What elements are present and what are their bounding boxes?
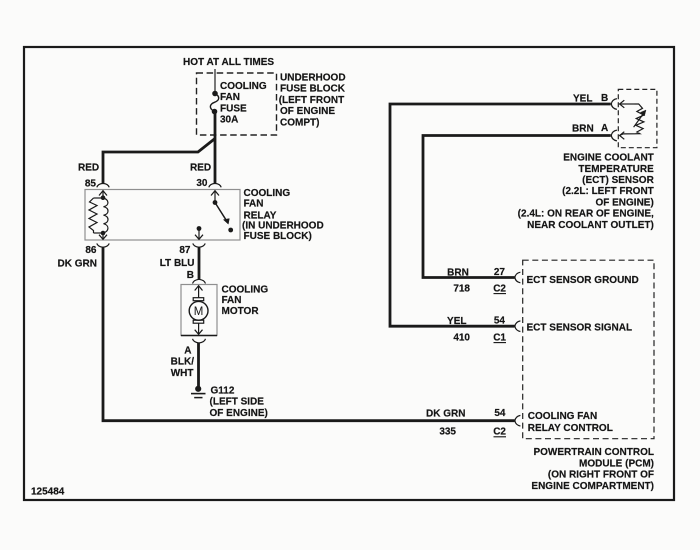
connector arc at sensor pin B (611, 99, 617, 110)
relay coil node dot (bottom, pin 86 side) (101, 231, 106, 236)
svg-text:COOLING: COOLING (244, 188, 291, 199)
relay coil (between pins 85 and 86) (89, 198, 108, 233)
svg-text:ECT SENSOR SIGNAL: ECT SENSOR SIGNAL (527, 323, 633, 334)
svg-text:LT BLU: LT BLU (160, 258, 195, 269)
wire RED: fuse output down to relay pin 30 (214, 112, 217, 184)
svg-text:C2: C2 (493, 426, 506, 437)
svg-text:30: 30 (196, 178, 208, 189)
label: COOLING FAN RELAY CONTROL (528, 411, 613, 434)
svg-text:BRN: BRN (572, 124, 594, 135)
svg-text:(ECT) SENSOR: (ECT) SENSOR (582, 175, 654, 186)
svg-text:MODULE (PCM): MODULE (PCM) (579, 458, 654, 469)
svg-text:27: 27 (494, 267, 506, 278)
ECT sensor (dashed boundary) (618, 89, 657, 147)
connector arc at relay pin 86 (97, 243, 109, 247)
label: POWERTRAIN CONTROL MODULE (PCM) (ON RIGHT FRONT OF ENGINE COMPARTMENT) (531, 447, 654, 492)
label: COOLING FAN FUSE 30A (220, 81, 267, 126)
svg-text:(LEFT FRONT: (LEFT FRONT (279, 95, 345, 106)
svg-text:54: 54 (494, 408, 506, 419)
svg-text:FUSE: FUSE (220, 103, 247, 114)
wire DK GRN: relay pin 86 down and across to PCM pin 54 C2 (103, 247, 515, 421)
connector id C2 (underlined) (493, 426, 506, 437)
svg-text:ENGINE COMPARTMENT): ENGINE COMPARTMENT) (531, 481, 654, 492)
svg-text:C1: C1 (493, 332, 506, 343)
svg-text:YEL: YEL (573, 94, 592, 105)
fuse: COOLING FAN FUSE 30A (210, 91, 218, 114)
svg-text:(LEFT SIDE: (LEFT SIDE (210, 397, 265, 408)
wire BRN: ECT sensor pin A across and down to PCM pin 27 C2 (423, 136, 611, 278)
svg-text:UNDERHOOD: UNDERHOOD (280, 72, 346, 83)
svg-text:(2.2L: LEFT FRONT: (2.2L: LEFT FRONT (562, 186, 654, 197)
svg-text:FUSE BLOCK: FUSE BLOCK (280, 84, 346, 95)
relay switch fixed contact dot (228, 228, 233, 233)
motor M1: armature circle with M (189, 301, 208, 320)
relay switch terminal 87: male arrow pin (195, 229, 203, 240)
svg-text:(2.4L: ON REAR OF ENGINE,: (2.4L: ON REAR OF ENGINE, (518, 209, 654, 220)
thermistor element of ECT sensor (620, 104, 644, 135)
relay coil terminal 85: male arrow pin (99, 191, 107, 198)
motor M1: brush bottom (193, 320, 204, 323)
svg-text:(IN UNDERHOOD: (IN UNDERHOOD (242, 221, 324, 232)
cooling fan motor box (181, 285, 217, 336)
connector arc at PCM pin 27 (515, 272, 521, 283)
svg-text:A: A (601, 123, 608, 134)
svg-text:718: 718 (453, 283, 470, 294)
connector arc at motor pin B (193, 279, 206, 283)
svg-text:DK GRN: DK GRN (426, 409, 465, 420)
thermistor characteristic arrow (634, 110, 646, 127)
wire: feed from fuse block top to fuse (214, 69, 216, 93)
svg-text:NEAR COOLANT OUTLET): NEAR COOLANT OUTLET) (527, 220, 654, 231)
svg-text:54: 54 (494, 316, 506, 327)
svg-text:WHT: WHT (171, 368, 194, 379)
svg-text:85: 85 (85, 179, 97, 190)
svg-text:B: B (187, 270, 194, 281)
svg-text:OF ENGINE): OF ENGINE) (595, 197, 653, 208)
label: COOLING FAN RELAY (IN UNDERHOOD FUSE BLOCK) (242, 188, 324, 242)
svg-text:RED: RED (190, 163, 211, 174)
label: BLK/WHT wire (171, 357, 195, 379)
connector id C1 (underlined) (493, 332, 506, 343)
svg-text:335: 335 (439, 426, 456, 437)
svg-text:FAN: FAN (244, 199, 264, 210)
svg-text:YEL: YEL (447, 316, 466, 327)
connector arc at relay pin 30 (209, 183, 221, 187)
powertrain control module PCM (dashed boundary) (523, 260, 654, 439)
svg-text:COOLING: COOLING (220, 81, 267, 92)
underhood fuse block (dashed boundary) (197, 73, 277, 135)
svg-text:POWERTRAIN CONTROL: POWERTRAIN CONTROL (533, 447, 654, 458)
relay switch terminal 30: male arrow pin (211, 191, 219, 203)
svg-text:(ON RIGHT FRONT OF: (ON RIGHT FRONT OF (548, 470, 654, 481)
label: ENGINE COOLANT TEMPERATURE (ECT) SENSOR (2.2L / 2.4L locations) (518, 153, 655, 231)
svg-text:A: A (184, 346, 191, 357)
connector arc at motor pin A (193, 339, 206, 343)
svg-text:C2: C2 (493, 283, 506, 294)
wire YEL: ECT sensor pin B across and down to PCM pin 54 C1 (390, 104, 611, 326)
wire BLK/WHT: motor pin A to ground G112 (197, 343, 200, 387)
svg-text:BRN: BRN (447, 267, 469, 278)
connector arc at relay pin 85 (97, 183, 109, 187)
sensor pin B male arrow inside box (620, 100, 635, 108)
connector arc at relay pin 87 (193, 243, 205, 247)
svg-text:B: B (601, 93, 608, 104)
svg-text:TEMPERATURE: TEMPERATURE (578, 164, 654, 175)
svg-text:MOTOR: MOTOR (222, 306, 260, 317)
label: G112 (LEFT SIDE OF ENGINE) (210, 385, 268, 419)
svg-text:87: 87 (179, 245, 191, 256)
svg-text:RED: RED (78, 163, 99, 174)
relay coil node dot (top, pin 85 side) (101, 195, 106, 200)
relay switch movable arm with arrowhead (215, 203, 229, 225)
svg-text:86: 86 (85, 245, 97, 256)
wire RED: branch junction diagonal to pin 85 (103, 139, 215, 184)
relay switch terminal 87 node dot (197, 226, 202, 231)
svg-text:OF ENGINE): OF ENGINE) (210, 408, 268, 419)
connector id C2 (underlined) (493, 283, 506, 294)
label: COOLING FAN MOTOR (222, 285, 269, 317)
motor pin A arrow to bottom of box (195, 324, 203, 335)
svg-text:FAN: FAN (220, 92, 240, 103)
motor pin B male arrow inside box (195, 286, 203, 298)
relay switch common node dot (213, 200, 218, 205)
wire LT BLU: relay pin 87 down to motor pin B (198, 247, 201, 280)
svg-text:30A: 30A (220, 115, 238, 126)
ground G112 (191, 386, 206, 397)
svg-text:M: M (194, 306, 204, 318)
sensor pin A male arrow inside box (620, 132, 625, 140)
svg-text:ECT SENSOR GROUND: ECT SENSOR GROUND (527, 275, 639, 286)
svg-text:RELAY CONTROL: RELAY CONTROL (528, 423, 613, 434)
svg-text:COOLING: COOLING (222, 285, 269, 296)
cooling fan relay box (85, 190, 240, 241)
svg-text:COOLING FAN: COOLING FAN (528, 411, 597, 422)
svg-text:410: 410 (453, 332, 470, 343)
svg-text:125484: 125484 (31, 486, 65, 497)
svg-text:FUSE BLOCK): FUSE BLOCK) (244, 231, 312, 242)
motor M1: brush top (193, 298, 204, 301)
svg-text:FAN: FAN (222, 295, 242, 306)
connector arc at PCM pin 54 C2 (515, 415, 521, 426)
connector arc at PCM pin 54 C1 (515, 321, 521, 332)
svg-text:BLK/: BLK/ (171, 357, 195, 368)
connector arc at sensor pin A (611, 130, 617, 141)
svg-text:DK GRN: DK GRN (58, 259, 97, 270)
svg-text:G112: G112 (211, 385, 235, 396)
svg-text:OF ENGINE: OF ENGINE (280, 106, 335, 117)
svg-text:ENGINE COOLANT: ENGINE COOLANT (563, 153, 654, 164)
svg-text:HOT AT ALL TIMES: HOT AT ALL TIMES (183, 57, 274, 68)
relay coil terminal 86: male arrow pin (99, 233, 107, 239)
label: UNDERHOOD FUSE BLOCK (LEFT FRONT OF ENGINE COMPT) (279, 72, 346, 128)
svg-text:COMPT): COMPT) (280, 117, 319, 128)
